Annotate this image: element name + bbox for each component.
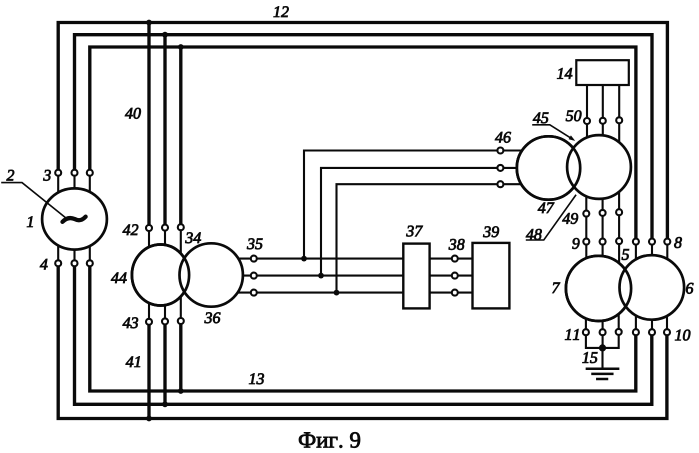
terminal row 11 xyxy=(583,329,589,335)
machine 5 circle 7 xyxy=(566,256,631,321)
wire: terminals 8 to circle 6 xyxy=(635,245,637,270)
generator symbol (squiggle) xyxy=(63,217,86,222)
node: tap bus40 c xyxy=(178,44,184,50)
machine 5 circle 6 xyxy=(620,255,685,320)
label 49 xyxy=(562,213,578,224)
terminal row 8 xyxy=(633,239,639,245)
terminal row 35 xyxy=(251,256,257,262)
label 50 xyxy=(566,110,582,121)
label 48 xyxy=(526,229,542,240)
label 5 xyxy=(622,249,629,260)
label 43 xyxy=(123,317,138,328)
label 47 xyxy=(538,203,555,214)
terminal row 38 xyxy=(452,256,458,262)
wire: circle 48 to terminals 49 xyxy=(585,190,587,209)
thick buses xyxy=(58,23,667,419)
label 15 xyxy=(583,352,598,363)
wire: bus 41 vertical a xyxy=(147,325,150,419)
wire: bus 12 line C inner xyxy=(90,47,636,238)
wire: stems terminals 42 to transformer 34 xyxy=(148,231,150,260)
label 40 xyxy=(125,108,141,119)
node: riser tap 3 xyxy=(334,290,340,296)
wire: bus 13 line middle xyxy=(75,266,652,404)
label 46 xyxy=(495,132,511,143)
wire: stems terminals 46 to circle 47 xyxy=(504,149,530,151)
terminal row 42 xyxy=(146,225,152,231)
wire: stems circle 36 to terminals 35 xyxy=(228,258,251,260)
node: riser tap 1 xyxy=(301,256,307,262)
label 1 xyxy=(27,216,33,227)
node: tap bus41 a xyxy=(146,416,152,422)
block 39 xyxy=(473,243,510,309)
wire: bus 41 vertical b xyxy=(163,325,166,405)
wire: terminals 50 to circle 48 xyxy=(586,124,588,150)
wire: bus 12 line A outer xyxy=(58,23,667,239)
wire: block 37 to terminals 38 xyxy=(430,258,452,260)
terminal row 43 xyxy=(146,319,152,325)
wire: three-phase lines terminals 35 to block 37 xyxy=(257,258,403,260)
wire: bus 12 line B middle xyxy=(75,35,653,239)
terminal row 10 xyxy=(633,329,639,335)
generator 1 (circle) xyxy=(42,188,107,249)
terminal row 50 xyxy=(584,118,590,124)
node 15: star point xyxy=(599,344,606,351)
node: tap bus41 c xyxy=(178,388,184,394)
wire: circle 7 to terminals 11 xyxy=(585,305,587,329)
terminal row 9 xyxy=(583,239,589,245)
leader line label 48 xyxy=(527,195,576,240)
leader line label 2 xyxy=(2,183,65,218)
block 37 xyxy=(403,244,429,309)
node: riser tap 2 xyxy=(318,273,324,279)
transformer 34 circle 44 xyxy=(132,245,189,306)
label 4 xyxy=(40,259,48,270)
wire: terminals 38 to block 39 xyxy=(458,258,473,260)
label 10 xyxy=(675,330,690,341)
wire: terminals 11 to ground junction 15 xyxy=(586,336,600,348)
label 2 xyxy=(7,170,15,181)
label 36 xyxy=(205,312,221,323)
label 9 xyxy=(572,238,579,249)
wire: riser 2 to terminal 46b xyxy=(321,168,497,276)
wire: riser 1 to terminal 46a xyxy=(304,151,497,259)
label 14 xyxy=(557,68,572,79)
wire: thin stems circle 1 top (terminals 3 to circle) xyxy=(58,85,667,369)
wire: terminals 49 to terminals 9 xyxy=(585,216,587,239)
label 45 xyxy=(533,113,549,124)
label 6 xyxy=(686,283,693,294)
label 38 xyxy=(449,239,465,250)
wire: circle 6 to terminals 10 xyxy=(635,305,637,329)
label 11 xyxy=(565,329,579,340)
terminal rings xyxy=(55,117,670,335)
wire: riser 3 to terminal 46c xyxy=(337,184,498,292)
block 14 xyxy=(576,60,629,85)
label 44 xyxy=(111,273,127,284)
wire: bus 40 vertical a xyxy=(147,23,150,225)
node: tap bus40 a xyxy=(146,20,152,26)
node: tap bus40 b xyxy=(162,32,168,38)
wire: bus 40 vertical b xyxy=(163,35,166,225)
wire: bus 40 vertical c xyxy=(179,47,182,224)
wire: bus 13 line outer xyxy=(58,266,667,419)
wire: junction 15 to ground xyxy=(601,348,603,369)
label 37 xyxy=(406,226,423,237)
terminal row 3 xyxy=(55,170,61,176)
label 42 xyxy=(123,224,139,235)
label 12 xyxy=(274,6,289,17)
machine 45 circle 47 xyxy=(517,136,580,199)
transformer 34 circle 36 xyxy=(180,243,243,306)
label 7 xyxy=(553,283,561,294)
terminal row 49 xyxy=(583,211,589,217)
terminal row 4 xyxy=(55,260,61,266)
label 34 xyxy=(185,232,201,243)
label 3 xyxy=(43,170,50,181)
leader line label 45 xyxy=(533,125,573,139)
node: tap bus41 b xyxy=(162,401,168,407)
wire: bus 41 vertical c xyxy=(179,324,182,391)
label 13 xyxy=(249,373,264,384)
label 41 xyxy=(126,356,140,367)
label 35 xyxy=(247,238,263,249)
wire: thin stems circle 1 bottom (circle to terminals 4) xyxy=(57,240,59,260)
terminal row 46 xyxy=(497,148,503,154)
label 39 xyxy=(483,226,499,237)
machine 45 circle 48 xyxy=(567,135,631,199)
wire: stems transformer 34 to terminals 43 xyxy=(148,290,150,318)
label caption Fig 9 xyxy=(299,432,360,448)
ground xyxy=(587,369,618,379)
wire: terminals 9 to circle 7 xyxy=(585,245,587,270)
wire: block 14 stems to terminals 50 xyxy=(586,85,588,118)
label 8 xyxy=(674,237,682,248)
wire: bus 13 line inner xyxy=(90,266,636,391)
